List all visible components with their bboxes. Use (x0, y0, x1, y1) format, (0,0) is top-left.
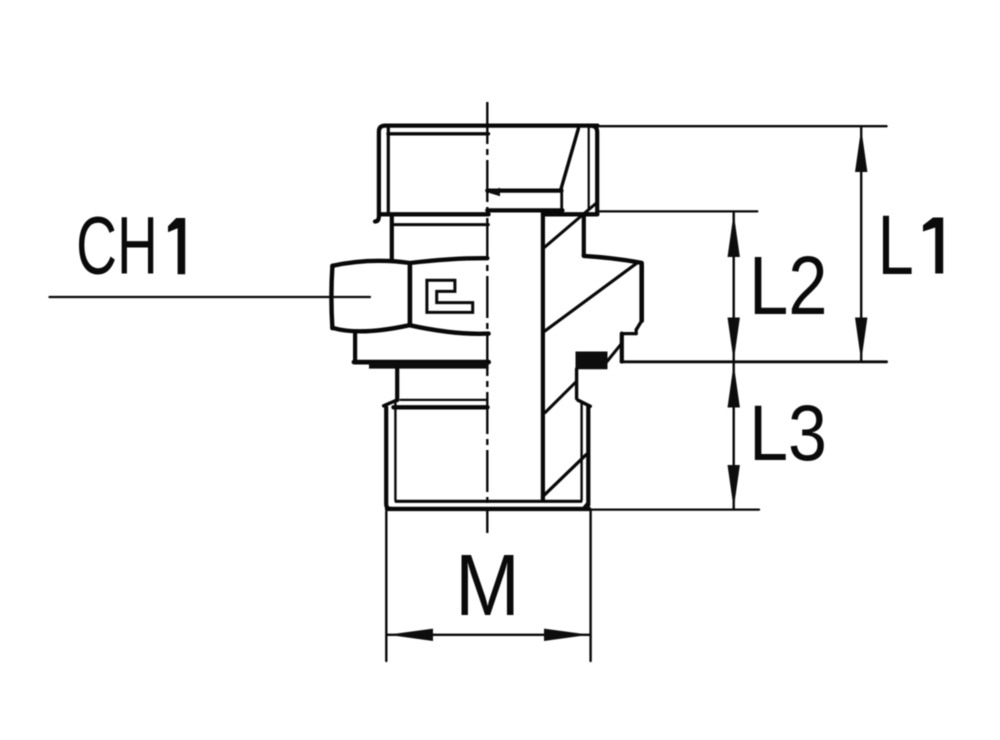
nut left inner edge (387, 128, 390, 214)
neck left edge (390, 217, 394, 259)
digit 1 of L1 (923, 218, 943, 274)
washer right small vertical (635, 330, 638, 334)
nut top chamfer line (388, 132, 489, 135)
hex corner line (408, 266, 413, 325)
hatch washer H3 (607, 344, 622, 362)
L3 arrow top (728, 364, 740, 408)
washer step line (622, 332, 636, 335)
nut right inner edge (588, 128, 590, 209)
extension line top L1 (598, 125, 887, 127)
hex top edge right (584, 256, 642, 263)
CH1 leader line (50, 296, 371, 298)
nut bore bottom line (487, 189, 561, 193)
hex left face edge (331, 266, 332, 328)
shank right edge (575, 369, 578, 399)
seal band outside view (369, 362, 489, 368)
digit 1 of CH1 (168, 218, 185, 274)
L2 arrow bottom (728, 318, 740, 362)
hex bottom arc left (332, 325, 488, 334)
thread start thick line (394, 405, 488, 409)
L1 arrow top (855, 128, 867, 172)
L1 dimension line (860, 128, 862, 361)
hex top arc left (332, 258, 487, 266)
neck right edge (582, 215, 586, 256)
bore wall (541, 212, 545, 500)
M extension right (589, 510, 591, 661)
thread right chamfer (578, 400, 590, 406)
centerline (486, 102, 488, 533)
L2 dimension line (733, 213, 735, 361)
washer right edge (620, 334, 624, 362)
M extension left (385, 512, 387, 662)
hatch shank H4 (545, 382, 576, 413)
thread left chamfer (384, 400, 398, 406)
svg-text:L2: L2 (749, 240, 828, 333)
hex right edge (639, 265, 644, 321)
washer chamfer (636, 321, 642, 330)
hatch thread H5 (543, 454, 587, 497)
svg-text:L: L (878, 198, 914, 292)
thread bottom right chamfer (583, 503, 588, 509)
hatch hex H2 (544, 263, 637, 332)
hatch neck H1 (544, 203, 596, 247)
nut top edge (385, 123, 598, 127)
thread left crest (386, 408, 391, 509)
L1 arrow bottom (855, 318, 867, 362)
extension line thread end (590, 508, 760, 510)
thread right crest (586, 407, 590, 506)
extension line shoulder (621, 360, 887, 363)
nut left outer edge (375, 126, 385, 222)
M arrow left (388, 629, 433, 641)
shank left edge (395, 368, 399, 401)
thread right root (580, 402, 582, 500)
svg-text:M: M (455, 537, 520, 634)
bore line arrow nib (486, 188, 500, 196)
L3 dimension line (733, 364, 735, 509)
bore step vertical (560, 189, 563, 211)
logo stamp on hex (427, 280, 473, 312)
svg-text:CH: CH (76, 199, 158, 291)
nut inner step line (487, 208, 562, 212)
nut bottom edge left (381, 212, 489, 216)
seal ring section (black) (576, 352, 608, 370)
thread bottom inner line (396, 500, 581, 503)
M arrow right (544, 629, 589, 641)
washer left edge (353, 334, 357, 362)
neck collar line (394, 223, 488, 226)
nut bottom edge right (543, 212, 597, 216)
thread start thin line (401, 399, 488, 401)
L3 arrow bottom (728, 465, 740, 509)
thread bottom edge (387, 507, 589, 511)
extension line L2 top (598, 210, 758, 212)
svg-text:L3: L3 (749, 388, 827, 477)
thread left root (394, 402, 396, 500)
nut right outer edge (590, 126, 597, 214)
L2 arrow top (728, 213, 740, 257)
nut cone seat diagonal (561, 129, 579, 191)
washer bottom line left (354, 360, 489, 365)
M dimension line (387, 634, 591, 636)
